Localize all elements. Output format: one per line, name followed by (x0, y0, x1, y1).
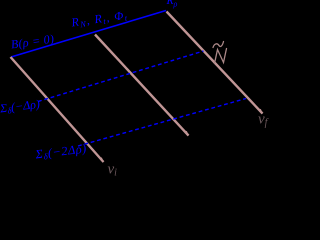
null ray v_f (right tan line) (167, 12, 264, 115)
dashed surface Sigma(-2 delta rho) (78, 99, 246, 147)
null ray v_i (left tan line) (11, 57, 105, 163)
label N tilde (normal vector), hand-drawn (213, 42, 227, 64)
brane line B (solid blue, rho=0) (11, 11, 166, 58)
dashed surface Sigma(-delta rho) (38, 51, 204, 102)
null ray middle (tan line) (95, 35, 189, 137)
